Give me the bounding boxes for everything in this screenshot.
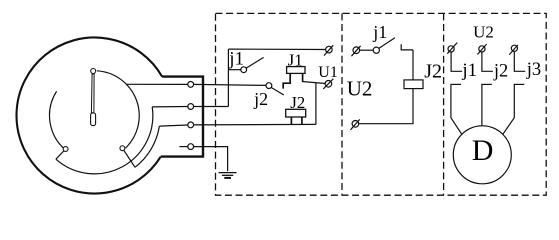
- limit contact left: [63, 147, 68, 152]
- dashed divider left/middle: [341, 13, 343, 195]
- wire pointer-contact to T1: [127, 83, 188, 85]
- wire stub T4: [179, 146, 187, 148]
- wire down to coil: [412, 50, 414, 80]
- wire R3 down + contact j3 upper tick: [514, 51, 525, 71]
- svg-text:D: D: [472, 134, 494, 167]
- relay coil J2: [404, 80, 423, 89]
- middle: terminal A (slashed): [351, 46, 360, 56]
- svg-text:U1: U1: [318, 64, 338, 81]
- wire top bus to terminal: [228, 48, 325, 50]
- contact j1 lower tick: [451, 83, 462, 85]
- terminal U1 (slashed): [323, 79, 333, 89]
- contact j2 lower tick: [481, 83, 492, 85]
- svg-text:J2: J2: [290, 93, 305, 112]
- terminal B (slashed): [351, 119, 360, 129]
- svg-text:j2: j2: [493, 62, 508, 82]
- contact j1 arm: [246, 57, 263, 68]
- needle pivot: [91, 113, 96, 126]
- contact j2 fixed circle: [266, 83, 272, 89]
- wire to switch: [360, 49, 374, 51]
- svg-text:J2: J2: [424, 61, 442, 83]
- motor D: [453, 126, 511, 184]
- wire line 2 to motor: [481, 84, 483, 125]
- contact j1 stub: [228, 69, 240, 71]
- wire coil to bottom: [359, 89, 413, 124]
- right: terminal R1 (slashed): [447, 43, 457, 54]
- svg-text:j1: j1: [228, 49, 244, 70]
- contact j3 lower tick: [514, 83, 525, 85]
- terminal T4: [188, 144, 194, 150]
- wire line 1 to motor: [451, 84, 462, 134]
- terminal T3: [188, 122, 194, 128]
- needle: [91, 74, 94, 113]
- wire T3 into box to J2 legs: [194, 123, 316, 126]
- wire line 3 to motor: [503, 84, 514, 134]
- dashed enclosure border: [216, 13, 547, 195]
- switch j1 arm: [379, 38, 395, 49]
- contact j1 fixed circle: [241, 67, 247, 73]
- svg-text:j1: j1: [372, 22, 387, 42]
- ground: [219, 173, 237, 178]
- wire R2 down + contact j2 upper tick: [482, 52, 493, 71]
- svg-text:J1: J1: [288, 50, 303, 69]
- svg-text:U2: U2: [347, 77, 373, 101]
- switch j1 fixed circle: [373, 47, 379, 53]
- wire S1 to T2: [152, 106, 188, 108]
- gauge outer case circle: [16, 38, 162, 194]
- svg-text:j2: j2: [253, 89, 268, 109]
- svg-text:j3: j3: [526, 60, 541, 80]
- slip arc S2 (outer, to terminal T3): [135, 126, 159, 167]
- contact lead right: [124, 150, 135, 167]
- wire T2 into box: [194, 106, 229, 108]
- gauge dial arc left: [50, 91, 68, 151]
- wire T1 into box to j2 contact: [194, 84, 266, 85]
- relay contact J1: [283, 67, 305, 89]
- needle tip contact circle: [91, 69, 96, 74]
- switch j1 post: [401, 44, 413, 50]
- svg-text:U2: U2: [473, 22, 494, 41]
- contact j2 arm: [271, 87, 284, 95]
- contact lead left: [56, 151, 64, 159]
- dashed divider middle/right: [443, 13, 445, 195]
- slip arc S1 (lower, to terminal T2): [56, 107, 153, 174]
- node terminal top (slashed): [324, 45, 333, 55]
- limit contact right: [120, 146, 125, 151]
- gauge dial arc right: [97, 71, 139, 148]
- wire R1 down + contact j1 upper tick: [451, 52, 462, 71]
- wire J1 to U1 terminal: [302, 82, 325, 84]
- wire U1 branch down: [315, 83, 317, 125]
- terminal T1: [188, 82, 194, 88]
- wire S2 to T3: [159, 125, 187, 126]
- right: terminal R3 (slashed): [509, 45, 518, 55]
- terminal T2: [188, 104, 194, 110]
- gauge terminal block: [161, 77, 203, 157]
- wire T4 to ground: [194, 147, 228, 172]
- svg-text:j1: j1: [461, 60, 477, 81]
- wire vertical bus: [227, 49, 229, 106]
- right: terminal R2 (slashed): [477, 44, 486, 54]
- relay contact J2: [286, 109, 306, 124]
